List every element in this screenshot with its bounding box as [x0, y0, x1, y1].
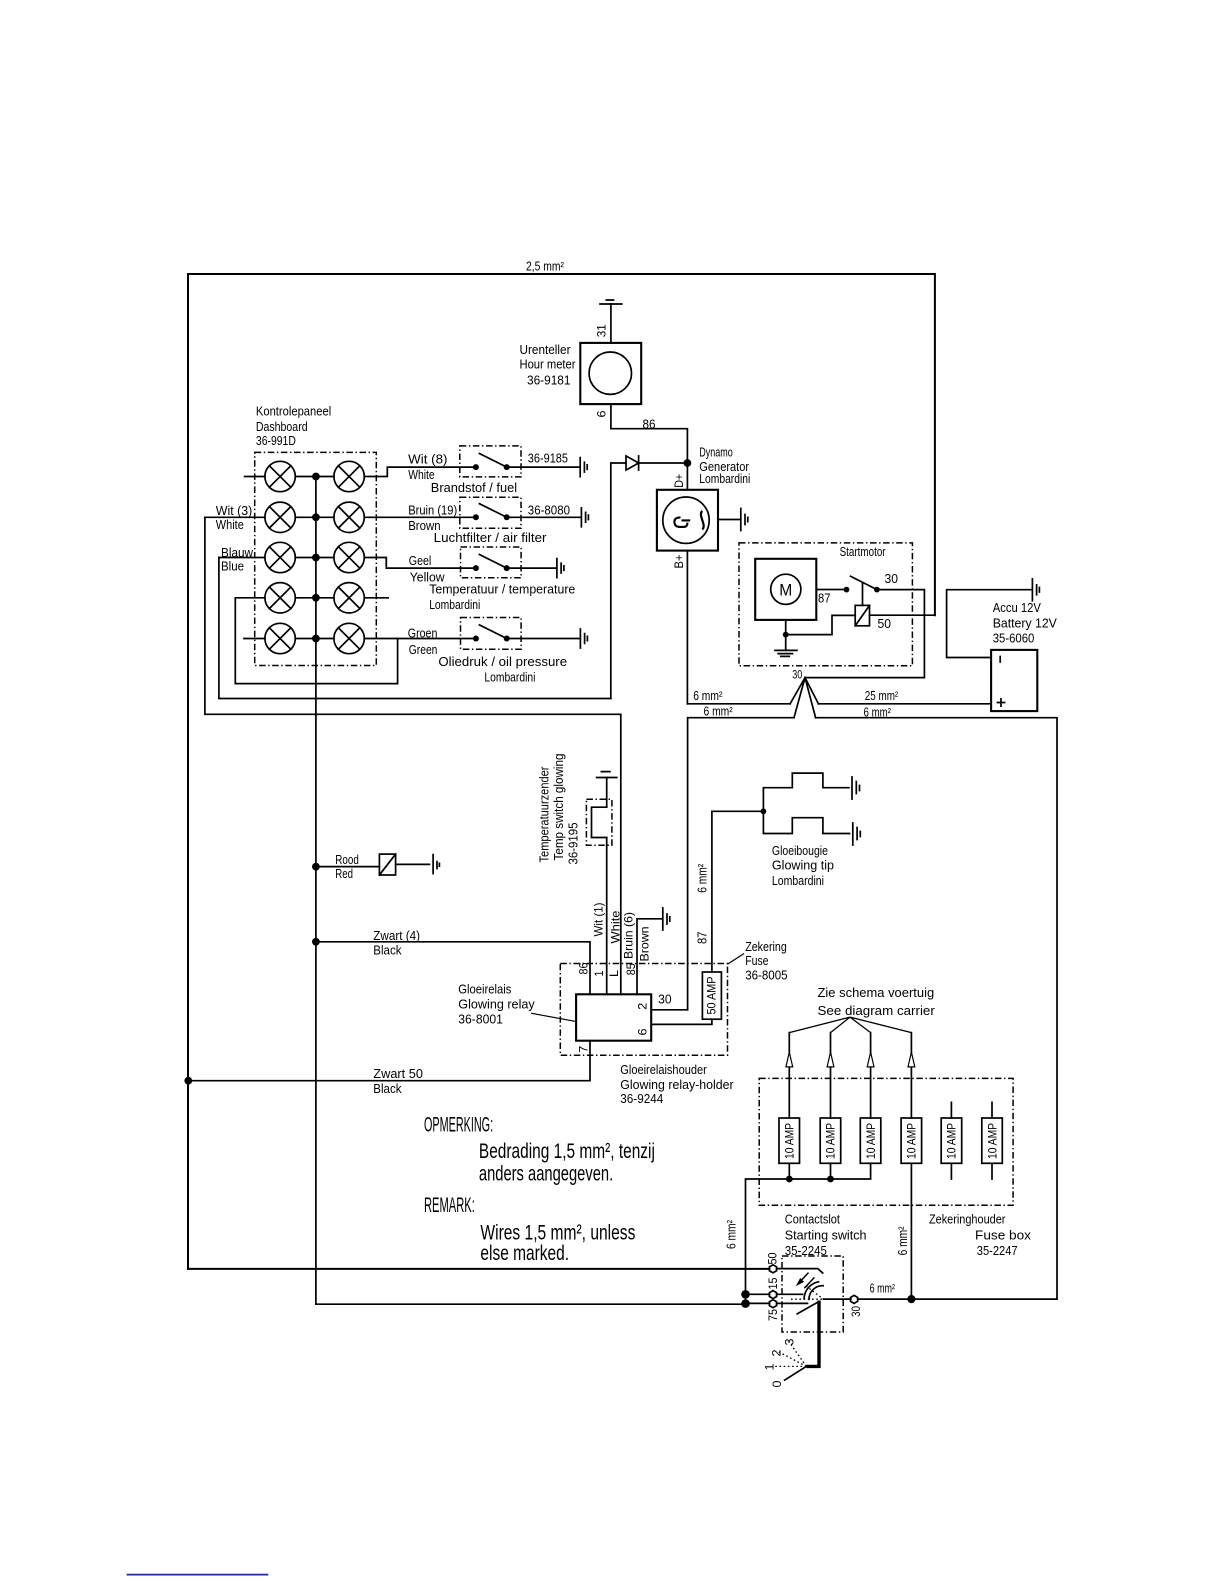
wire: fuse 2 feed — [830, 1033, 832, 1118]
svg-text:10 AMP: 10 AMP — [905, 1123, 919, 1159]
wire: terminal 15 into switch — [777, 1293, 803, 1295]
fuse F3 10 AMP — [860, 1118, 881, 1163]
wire: row4 lamp wire — [235, 597, 388, 599]
switch wiper arcs — [809, 1286, 823, 1300]
switch actuator shaft (thick) — [806, 1301, 819, 1367]
wire: fuse 4 output to switch 30 wire — [910, 1163, 912, 1299]
buzzer/coil Z1 on Rood wire — [379, 854, 395, 875]
indicator lamp L6 — [334, 542, 364, 572]
switch blade — [797, 1302, 819, 1314]
svg-text:6: 6 — [595, 410, 609, 417]
arrow on fuse 4 wire — [908, 1052, 915, 1067]
svg-text:Glowing tip: Glowing tip — [772, 858, 834, 873]
svg-text:7: 7 — [577, 1045, 591, 1052]
ground at generator — [741, 509, 748, 531]
terminal 75 (hex) — [769, 1300, 776, 1308]
solenoid switch blade — [851, 576, 877, 589]
svg-text:Startmotor: Startmotor — [840, 544, 887, 559]
svg-text:36-8001: 36-8001 — [458, 1011, 503, 1026]
fuel switch S1 enclosure — [460, 446, 521, 477]
indicator lamp L5 — [265, 542, 295, 572]
start motor enclosure (dash-dot) — [739, 543, 912, 666]
svg-text:Zie schema voertuig: Zie schema voertuig — [818, 985, 935, 1000]
generator AC tilde (rotated squiggle) — [701, 511, 704, 530]
svg-text:Black: Black — [373, 1081, 402, 1096]
svg-text:75: 75 — [766, 1309, 780, 1321]
wire: row2 lamp wire — [205, 516, 476, 518]
svg-text:Contactslot: Contactslot — [785, 1212, 841, 1227]
fuse F5 10 AMP (spare) — [941, 1118, 962, 1163]
wire: Zwart(4) to relay pin 86 — [316, 942, 590, 995]
svg-text:Wit (8): Wit (8) — [408, 451, 447, 466]
node: solenoid contact left — [844, 587, 850, 593]
node 30 fan to buses — [790, 678, 818, 718]
svg-text:Wit (3): Wit (3) — [216, 503, 253, 518]
wire: fuse 6 stubs — [991, 1102, 993, 1179]
svg-text:Blue: Blue — [221, 558, 244, 573]
svg-text:35-2247: 35-2247 — [977, 1243, 1018, 1258]
svg-text:6: 6 — [636, 1028, 650, 1035]
wire: Blauw/Blue lamp feed loop — [219, 557, 611, 698]
fuse F4 10 AMP — [901, 1118, 922, 1163]
svg-text:D+: D+ — [672, 474, 686, 488]
fuse F0 50 AMP — [702, 972, 721, 1019]
svg-text:10 AMP: 10 AMP — [864, 1123, 878, 1159]
wire: battery minus to ground — [947, 590, 1032, 658]
node: bus dot row1 — [312, 473, 320, 481]
svg-text:Oliedruk / oil pressure: Oliedruk / oil pressure — [438, 654, 567, 669]
svg-text:Green: Green — [409, 642, 438, 657]
svg-text:85: 85 — [624, 963, 638, 975]
svg-text:Zekering: Zekering — [745, 939, 787, 954]
fan from See-diagram note to fuse wires — [789, 1017, 911, 1033]
wire: S3 to ground — [507, 567, 557, 569]
temperature switch S3 contacts — [473, 565, 479, 571]
fuse F2 10 AMP — [820, 1118, 841, 1163]
svg-text:36-8005: 36-8005 — [745, 968, 787, 983]
hour meter dial circle — [589, 352, 631, 394]
generator G 36 box — [657, 490, 718, 551]
svg-text:2: 2 — [636, 1002, 650, 1009]
node: junction dot at generator D+ — [684, 459, 692, 467]
svg-text:Brown: Brown — [638, 927, 652, 962]
wire: 87 feed to glow plug junction — [712, 811, 764, 972]
wire: motor case to earth — [785, 620, 787, 651]
svg-text:M: M — [779, 580, 792, 599]
wire: switch 30 to crow-foot node — [805, 590, 924, 678]
rotary position rays 1,2,3 (dotted) — [774, 1340, 807, 1366]
fuse F6 10 AMP (spare) — [982, 1118, 1003, 1163]
svg-text:50: 50 — [766, 1252, 780, 1264]
ground on Rood branch — [433, 855, 439, 874]
svg-text:Temperatuurzender: Temperatuurzender — [537, 766, 552, 863]
svg-text:Bruin (6): Bruin (6) — [622, 912, 636, 959]
svg-text:Hour meter: Hour meter — [520, 357, 577, 372]
node: bus dot row5 — [312, 635, 320, 643]
svg-text:86: 86 — [643, 416, 656, 431]
wire: 75 feed from lamp bus — [316, 1302, 770, 1305]
node: bus dot Rood — [312, 863, 320, 871]
wire: row1 lamp wire — [245, 467, 476, 476]
wire: generator B+ down to 6mm2 bus — [686, 551, 688, 704]
wire: terminal 50 into switch — [777, 1269, 823, 1273]
svg-text:30: 30 — [885, 571, 899, 586]
indicator lamp L4 — [334, 502, 364, 532]
svg-text:Temp switch glowing: Temp switch glowing — [551, 754, 566, 861]
svg-text:36-9195: 36-9195 — [566, 823, 581, 865]
svg-text:36-9244: 36-9244 — [620, 1091, 663, 1106]
indicator lamp L7 — [265, 583, 295, 613]
svg-text:6 mm²: 6 mm² — [870, 1281, 896, 1296]
svg-text:2,5 mm²: 2,5 mm² — [526, 259, 565, 274]
wire: switch common to terminal 30 — [824, 1298, 851, 1300]
node: dot fuse4 on 30 wire — [907, 1295, 915, 1303]
svg-text:Urenteller: Urenteller — [520, 342, 572, 357]
svg-text:Groen: Groen — [408, 626, 438, 641]
wire: relay pin 6 to fuse 50A — [651, 1019, 712, 1024]
node: dot fuse2 output — [827, 1176, 834, 1183]
hour meter U1 36-9181 box — [580, 343, 641, 404]
wire: fuse 3 feed — [870, 1033, 872, 1118]
wire: Zwart 50 to relay pin 7 — [188, 1041, 590, 1081]
svg-text:36-991D: 36-991D — [256, 433, 296, 448]
ground after S2 — [581, 508, 588, 527]
svg-text:0: 0 — [770, 1380, 784, 1387]
glow plug E2 — [763, 811, 849, 833]
svg-text:36-9181: 36-9181 — [527, 373, 571, 388]
svg-text:Zwart (4): Zwart (4) — [373, 928, 420, 943]
wire: diode anode from blue dashboard wire — [611, 463, 626, 699]
svg-text:31: 31 — [595, 324, 609, 337]
fuse F1 10 AMP — [779, 1118, 800, 1163]
dotted wiper position lines — [791, 1286, 824, 1299]
solenoid coil K1 — [855, 605, 869, 625]
node: bus dot row2 — [312, 513, 320, 521]
svg-text:6 mm²: 6 mm² — [864, 704, 892, 719]
oil pressure switch S4 enclosure — [461, 618, 522, 650]
svg-text:Lombardini: Lombardini — [484, 669, 535, 684]
wire: relay pin 2 to 6mm2 bus — [651, 1009, 687, 1011]
svg-text:See diagram carrier: See diagram carrier — [818, 1003, 936, 1018]
ground G1 above hour meter — [600, 300, 622, 304]
svg-text:3: 3 — [783, 1338, 797, 1345]
indicator lamp L2 — [334, 461, 364, 491]
indicator lamp L9 — [265, 623, 295, 653]
starting switch enclosure 35-2245 (dash-dot) — [782, 1256, 843, 1332]
node: dot fuse1 output — [786, 1176, 793, 1183]
svg-text:Zekeringhouder: Zekeringhouder — [929, 1212, 1006, 1227]
svg-text:6 mm²: 6 mm² — [724, 1219, 739, 1249]
battery plus mark — [997, 699, 1004, 706]
svg-text:Dashboard: Dashboard — [256, 419, 308, 434]
generator circle — [663, 497, 709, 543]
svg-text:L: L — [607, 970, 621, 977]
wire: ground to temp sender — [606, 778, 608, 808]
svg-text:Accu 12V: Accu 12V — [993, 600, 1041, 615]
svg-text:6 mm²: 6 mm² — [693, 688, 723, 703]
svg-text:anders aangegeven.: anders aangegeven. — [479, 1161, 613, 1185]
svg-text:Black: Black — [373, 943, 402, 958]
wire: Wit(1) temp sender to relay pin 1 — [606, 838, 608, 995]
svg-text:36-9185: 36-9185 — [528, 450, 568, 465]
node: solenoid contact right — [874, 587, 880, 593]
svg-text:Gloeirelaishouder: Gloeirelaishouder — [620, 1062, 707, 1077]
diode D1 — [626, 456, 639, 470]
wire: lamp bus vertical — [315, 477, 317, 1305]
wire: link dot15 to dot75 — [745, 1294, 747, 1303]
fuse box enclosure 35-2247 (dash-dot) — [759, 1078, 1013, 1205]
svg-text:Kontrolepaneel: Kontrolepaneel — [256, 404, 331, 419]
wire: row5 lamp wire — [244, 638, 476, 640]
wire: fuse 1 feed — [788, 1033, 790, 1118]
ground at battery — [1032, 579, 1039, 601]
start motor M box — [755, 559, 816, 620]
node: bus dot Zwart (4) — [312, 938, 320, 946]
svg-text:Starting switch: Starting switch — [785, 1228, 867, 1243]
svg-text:OPMERKING:: OPMERKING: — [424, 1112, 493, 1136]
leader line to relay — [531, 1013, 577, 1022]
wire: hour meter 6 / 86 to generator junction — [611, 404, 688, 490]
wire: Bruin relay pin 85 to ground — [637, 919, 662, 995]
wire: coil to ground — [396, 863, 430, 865]
wire: terminal 75 into switch — [777, 1302, 808, 1304]
wire: hour meter 31 to ground — [610, 304, 612, 343]
svg-text:2: 2 — [770, 1349, 784, 1356]
svg-text:White: White — [609, 910, 623, 943]
ground after S4 — [580, 629, 587, 648]
node: glow plug junction — [761, 808, 767, 814]
svg-text:15: 15 — [766, 1277, 780, 1289]
svg-text:30: 30 — [658, 992, 672, 1007]
air filter switch S2 enclosure — [460, 497, 521, 528]
ground after S1 — [580, 458, 587, 477]
ground above temp sender — [597, 772, 617, 778]
svg-text:Gloeirelais: Gloeirelais — [458, 982, 512, 997]
wire: fuse 1-3 outputs to starting switch 15 — [746, 1163, 871, 1294]
actuation arrow into switch — [798, 1273, 814, 1289]
node: bus dot row4 — [312, 594, 320, 602]
wire: generator case to ground — [718, 519, 741, 521]
wire: 15 feed from fuses — [746, 1293, 770, 1295]
svg-text:Bedrading 1,5 mm², tenzij: Bedrading 1,5 mm², tenzij — [479, 1139, 655, 1163]
temp sender S5 36-9195 enclosure — [586, 799, 612, 845]
indicator lamp L3 — [265, 502, 295, 532]
svg-text:50: 50 — [878, 616, 892, 631]
svg-text:White: White — [216, 517, 244, 532]
svg-text:25 mm²: 25 mm² — [865, 688, 899, 703]
wire: coil 50 to 2,5mm2 loop — [870, 614, 935, 616]
svg-text:else marked.: else marked. — [480, 1241, 569, 1265]
wire: 6mm2 lower bus to glow relay 2 and starting switch 30 — [688, 718, 1057, 1299]
svg-text:Battery 12V: Battery 12V — [993, 616, 1058, 631]
wire: 2,5mm2 ignition-50 loop (left/top/right) — [188, 274, 935, 1269]
temperature switch S3 enclosure — [461, 547, 522, 578]
air filter switch S2 contacts — [473, 514, 479, 520]
ground at glow plug E2 — [853, 823, 861, 845]
arrow on fuse 3 wire — [867, 1052, 874, 1067]
svg-text:Rood: Rood — [335, 852, 359, 867]
svg-text:Brandstof / fuel: Brandstof / fuel — [431, 480, 517, 495]
svg-text:Bruin (19): Bruin (19) — [408, 503, 457, 518]
rotary position pointer 0 (solid) — [785, 1366, 807, 1380]
svg-text:Glowing relay: Glowing relay — [458, 997, 535, 1012]
wire: S4 to ground — [507, 638, 581, 640]
terminal 50 (hex) — [769, 1265, 776, 1273]
svg-text:30: 30 — [792, 667, 802, 681]
solenoid actuator link — [862, 583, 864, 606]
svg-text:6 mm²: 6 mm² — [895, 1226, 910, 1256]
wire: terminal 30 to lower 6mm2 bus — [858, 1298, 1057, 1300]
ground at glow plug E1 — [852, 777, 860, 799]
svg-text:35-6060: 35-6060 — [993, 630, 1035, 645]
generator G glyph (rotated) — [674, 517, 690, 527]
ground on Bruin wire — [663, 908, 670, 930]
svg-text:87: 87 — [818, 591, 831, 606]
node: dot 75 — [741, 1299, 750, 1308]
svg-text:Red: Red — [335, 866, 353, 881]
svg-text:B+: B+ — [672, 555, 686, 569]
svg-text:Glowing relay-holder: Glowing relay-holder — [620, 1077, 734, 1092]
wire: S1 to ground — [507, 466, 581, 468]
wire: S2 to ground — [507, 516, 582, 518]
wire: 6mm2 bus to battery + (upper bus) — [687, 703, 991, 705]
svg-text:10 AMP: 10 AMP — [824, 1123, 838, 1159]
battery minus mark — [999, 657, 1001, 663]
indicator lamp L1 — [265, 461, 295, 491]
battery BT1 35-6060 box — [991, 650, 1037, 711]
arrow on fuse 2 wire — [827, 1052, 834, 1067]
glow relay holder enclosure (dash-dot) — [560, 964, 727, 1056]
svg-text:1: 1 — [763, 1363, 777, 1370]
wire: motor 87 to solenoid switch — [816, 589, 846, 591]
terminal 15 (hex) — [769, 1291, 776, 1299]
svg-text:10 AMP: 10 AMP — [945, 1123, 959, 1159]
dashboard enclosure 36-991D (dash-dot) — [255, 452, 377, 665]
wire: 50 bottom run to starting switch — [188, 1268, 769, 1270]
temp sender contact — [592, 807, 607, 837]
terminal 30 (hex) — [851, 1295, 858, 1303]
svg-text:Dynamo: Dynamo — [699, 445, 733, 460]
svg-text:Gloeibougie: Gloeibougie — [772, 843, 828, 858]
svg-text:Wit (1): Wit (1) — [592, 902, 606, 936]
indicator lamp L8 — [334, 583, 364, 613]
svg-text:Lombardini: Lombardini — [429, 597, 480, 612]
svg-text:Lombardini: Lombardini — [699, 471, 750, 486]
footer link line (blue) — [127, 1574, 269, 1576]
fuel switch S1 contacts — [473, 464, 479, 470]
wire: row3 lamp wire — [219, 558, 476, 569]
wire: fuse 4 feed — [910, 1033, 912, 1118]
motor circle — [771, 574, 801, 604]
node: dot at motor ground — [783, 632, 789, 638]
wire: fuse 5 stubs — [950, 1102, 952, 1179]
svg-text:Fuse: Fuse — [745, 953, 768, 968]
svg-text:30: 30 — [849, 1306, 863, 1317]
node: dot 15 — [741, 1290, 750, 1299]
wire: diode cathode to junction — [639, 462, 688, 464]
svg-text:86: 86 — [577, 962, 591, 974]
oil pressure switch S4 contacts — [473, 636, 479, 642]
svg-text:1: 1 — [592, 970, 606, 976]
glow plug E1 — [763, 773, 849, 811]
svg-text:50 AMP: 50 AMP — [705, 977, 719, 1015]
node: bus dot row3 — [312, 554, 320, 562]
svg-text:Zwart 50: Zwart 50 — [373, 1066, 423, 1081]
svg-text:REMARK:: REMARK: — [424, 1193, 475, 1217]
svg-text:Lombardini: Lombardini — [772, 873, 824, 888]
svg-text:Geel: Geel — [409, 553, 432, 568]
arrow on fuse 1 wire — [786, 1052, 793, 1067]
node: dot Zwart 50 on loop — [184, 1077, 192, 1085]
svg-text:36-8080: 36-8080 — [528, 502, 570, 517]
leader line to fuse holder — [728, 954, 745, 965]
svg-text:Fuse box: Fuse box — [975, 1228, 1032, 1243]
svg-text:Luchtfilter / air filter: Luchtfilter / air filter — [434, 530, 547, 545]
svg-text:6 mm²: 6 mm² — [704, 704, 734, 719]
svg-text:10 AMP: 10 AMP — [783, 1123, 797, 1159]
glow relay K2 box — [576, 994, 651, 1040]
svg-text:87: 87 — [695, 932, 710, 945]
ground after S3 — [557, 559, 564, 578]
svg-text:6 mm²: 6 mm² — [695, 863, 710, 893]
wire: coil to motor ground — [786, 615, 856, 634]
wire: Wit(3)/White to glow relay pin L — [205, 517, 621, 994]
svg-text:10 AMP: 10 AMP — [985, 1123, 999, 1159]
svg-text:Temperatuur / temperature: Temperatuur / temperature — [429, 582, 575, 597]
earth ground at start motor — [775, 650, 797, 656]
wire: row4 to row5 link — [235, 598, 397, 684]
indicator lamp L10 — [334, 623, 364, 653]
wire: Rood to coil — [316, 866, 380, 868]
